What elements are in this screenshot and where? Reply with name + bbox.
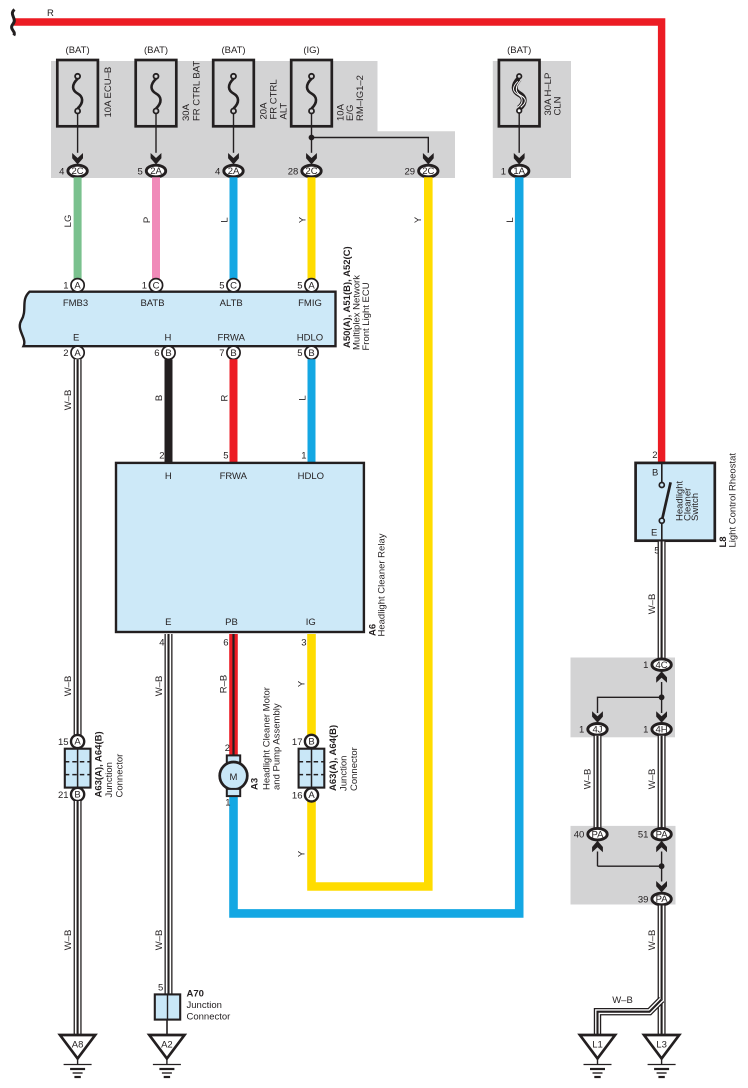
ECU pin 1 (C) BATB: [142, 279, 163, 292]
wire A70 to ground A2: [166, 1020, 168, 1034]
svg-text:A8: A8: [72, 1040, 84, 1051]
svg-text:5: 5: [138, 166, 143, 177]
svg-text:A3: A3: [249, 778, 260, 790]
svg-text:ALTB: ALTB: [220, 298, 243, 309]
connector 51 (PA): [638, 828, 671, 852]
fuse 10A E/G RM-IG1-2: [291, 45, 366, 153]
svg-text:PA: PA: [656, 829, 669, 840]
svg-text:5: 5: [219, 281, 224, 292]
connector 1 (4J): [579, 711, 607, 735]
svg-text:BATB: BATB: [140, 298, 164, 309]
wire P: [142, 177, 156, 279]
svg-text:A: A: [74, 737, 81, 748]
wire continuation squiggle: [12, 10, 15, 36]
wire L to ALTB: [219, 177, 233, 279]
ground L1: [580, 1035, 615, 1077]
svg-text:B: B: [74, 790, 80, 801]
svg-text:B: B: [652, 468, 658, 479]
ECU pin 5 (A) FMIG: [297, 279, 318, 292]
svg-text:Y: Y: [413, 216, 424, 223]
svg-text:PA: PA: [656, 894, 669, 905]
svg-text:3: 3: [301, 637, 306, 648]
svg-text:A2: A2: [161, 1040, 173, 1051]
svg-text:LG: LG: [63, 215, 74, 228]
wire W-B 4H to 51 PA: [647, 736, 662, 828]
svg-text:ALT: ALT: [279, 103, 290, 120]
multiplex network front light ECU A50/A51/A52: [20, 246, 372, 350]
connector 1 (4C): [643, 659, 671, 683]
wire W-B from relay E to A70: [154, 634, 169, 994]
svg-text:and Pump Assembly: and Pump Assembly: [272, 703, 283, 790]
svg-text:1: 1: [225, 798, 230, 809]
ground A2: [149, 1035, 184, 1077]
svg-text:A: A: [308, 790, 315, 801]
wire W-B 4J to 40 PA: [582, 736, 597, 828]
svg-text:Light Control Rheostat: Light Control Rheostat: [727, 453, 738, 548]
svg-text:(BAT): (BAT): [221, 45, 245, 56]
svg-text:IG: IG: [306, 617, 316, 628]
wire Y from relay IG: [296, 634, 311, 857]
svg-text:30A: 30A: [181, 103, 192, 121]
connector 4 (2C): [59, 153, 87, 177]
svg-text:W–B: W–B: [154, 676, 165, 697]
svg-text:FRWA: FRWA: [220, 471, 248, 482]
svg-text:1: 1: [643, 660, 648, 671]
svg-text:2: 2: [652, 450, 657, 461]
svg-text:W–B: W–B: [582, 769, 593, 790]
svg-text:A63(A), A64(B): A63(A), A64(B): [328, 725, 339, 791]
svg-text:B: B: [308, 737, 314, 748]
ground A8: [60, 1035, 95, 1077]
connector 5 (2A): [138, 153, 166, 177]
svg-text:28: 28: [288, 166, 299, 177]
connector 1 (4H): [643, 711, 671, 735]
svg-text:W–B: W–B: [63, 930, 74, 951]
headlight cleaner switch L8 light control rheostat: [636, 450, 739, 557]
svg-text:C: C: [153, 280, 160, 291]
svg-text:E: E: [165, 617, 171, 628]
junction connector A63(A) A64(B) left: [58, 731, 125, 801]
svg-text:H: H: [164, 332, 171, 343]
junction block shading (H-LP fuse block): [493, 61, 571, 178]
svg-text:Junction: Junction: [187, 1000, 222, 1011]
svg-text:2A: 2A: [228, 166, 240, 177]
svg-text:4C: 4C: [656, 660, 668, 671]
connector block shading (PA): [571, 826, 676, 905]
svg-text:B: B: [308, 348, 314, 359]
connector block shading (4C/4J/4H): [571, 658, 676, 738]
svg-text:Connector: Connector: [187, 1012, 231, 1023]
wire W-B from ECU pin E: [63, 359, 78, 735]
svg-text:4: 4: [215, 166, 220, 177]
svg-text:17: 17: [292, 737, 303, 748]
svg-text:21: 21: [58, 790, 69, 801]
svg-text:L: L: [505, 217, 516, 222]
svg-text:E: E: [73, 332, 79, 343]
junction connector A70: [155, 983, 231, 1023]
svg-text:L: L: [219, 217, 230, 222]
svg-text:2C: 2C: [72, 166, 84, 177]
svg-text:Y: Y: [296, 850, 307, 857]
svg-text:2C: 2C: [305, 166, 317, 177]
fuse 30A FR CTRL BAT: [136, 45, 203, 153]
svg-text:FRWA: FRWA: [217, 332, 245, 343]
svg-text:4: 4: [59, 166, 64, 177]
wire W-B 39 PA to grounds: [647, 906, 662, 1035]
svg-text:5: 5: [297, 281, 302, 292]
svg-text:RM–IG1–2: RM–IG1–2: [355, 75, 366, 121]
svg-text:H: H: [165, 471, 172, 482]
wire L from ECU HDLO to relay: [297, 359, 311, 463]
svg-text:L1: L1: [592, 1040, 603, 1051]
connector 1 (1A): [501, 153, 529, 177]
wire L long from pin 1A to motor: [234, 177, 520, 913]
svg-text:Junction: Junction: [104, 762, 115, 797]
svg-text:W–B: W–B: [63, 676, 74, 697]
svg-text:(BAT): (BAT): [66, 45, 90, 56]
svg-text:15: 15: [58, 737, 69, 748]
junction block shading (main fuse block): [51, 61, 455, 178]
wire R main battery feed: [14, 8, 662, 463]
svg-text:2: 2: [159, 450, 164, 461]
svg-text:39: 39: [638, 894, 649, 905]
wire Y long from pin 29 to IG elbow: [312, 177, 429, 886]
fuse 10A ECU-B: [57, 45, 114, 153]
ECU pin 5 (C) ALTB: [219, 279, 240, 292]
fusible link 30A H-LP CLN: [499, 45, 564, 153]
wire R-B from relay PB to motor: [218, 634, 233, 756]
svg-text:10A ECU–B: 10A ECU–B: [103, 67, 114, 118]
svg-text:2C: 2C: [422, 166, 434, 177]
wire Y to FMIG: [297, 177, 311, 279]
svg-text:W–B: W–B: [647, 930, 658, 951]
wire branch from IG fuse to pin 29: [309, 135, 429, 153]
svg-text:R: R: [47, 8, 54, 19]
ECU pin 5 (B) HDLO: [297, 346, 318, 359]
svg-text:29: 29: [405, 166, 416, 177]
svg-text:L: L: [297, 395, 308, 400]
svg-text:M: M: [230, 772, 238, 783]
connector 39 (PA): [638, 881, 671, 905]
svg-text:FR CTRL BAT: FR CTRL BAT: [191, 61, 202, 121]
svg-text:HDLO: HDLO: [298, 471, 324, 482]
svg-text:(BAT): (BAT): [507, 45, 531, 56]
svg-text:R: R: [219, 394, 230, 401]
svg-text:5: 5: [223, 450, 228, 461]
ground L3: [644, 1035, 679, 1077]
svg-text:7: 7: [219, 348, 224, 359]
svg-text:B: B: [154, 395, 165, 401]
connector 40 (PA): [574, 828, 607, 852]
ECU pin 7 (B) FRWA: [219, 346, 240, 359]
wire LG: [63, 177, 78, 279]
svg-text:2A: 2A: [150, 166, 162, 177]
svg-text:1: 1: [301, 450, 306, 461]
svg-text:W–B: W–B: [647, 769, 658, 790]
svg-text:B: B: [165, 348, 171, 359]
svg-text:1: 1: [643, 725, 648, 736]
svg-text:FMIG: FMIG: [298, 298, 322, 309]
svg-text:C: C: [230, 280, 237, 291]
svg-text:16: 16: [292, 790, 303, 801]
svg-text:4J: 4J: [592, 725, 602, 736]
svg-text:R–B: R–B: [218, 675, 229, 693]
svg-text:51: 51: [638, 830, 649, 841]
svg-text:Headlight Cleaner Relay: Headlight Cleaner Relay: [377, 533, 388, 636]
svg-text:5: 5: [297, 348, 302, 359]
svg-text:(IG): (IG): [303, 45, 319, 56]
svg-text:Connector: Connector: [114, 754, 125, 798]
svg-text:2: 2: [63, 348, 68, 359]
svg-text:Connector: Connector: [349, 747, 360, 791]
wire W-B switch to 4C: [647, 542, 662, 659]
svg-text:1: 1: [501, 166, 506, 177]
headlight cleaner motor A3: [220, 687, 283, 809]
connector 4 (2A): [215, 153, 243, 177]
fuse 20A FR CTRL ALT: [213, 45, 289, 153]
wire 4C to junction and 4J/4H: [598, 682, 665, 713]
svg-text:6: 6: [154, 348, 159, 359]
svg-text:W–B: W–B: [154, 930, 165, 951]
connector 29 (2C): [405, 153, 438, 177]
svg-text:Y: Y: [297, 216, 308, 223]
svg-text:B: B: [230, 348, 236, 359]
svg-text:4: 4: [159, 637, 164, 648]
svg-text:1A: 1A: [513, 166, 525, 177]
svg-text:FMB3: FMB3: [63, 298, 88, 309]
svg-text:PA: PA: [592, 829, 605, 840]
svg-text:W–B: W–B: [612, 995, 633, 1006]
svg-text:4H: 4H: [656, 725, 668, 736]
connector 28 (2C): [288, 153, 321, 177]
svg-text:L3: L3: [656, 1040, 667, 1051]
svg-text:Switch: Switch: [690, 493, 701, 521]
svg-text:Y: Y: [296, 680, 307, 687]
svg-text:5: 5: [158, 983, 163, 994]
svg-text:W–B: W–B: [63, 390, 74, 411]
wire B from ECU H to relay: [154, 359, 169, 463]
svg-text:PB: PB: [225, 617, 238, 628]
ECU pin 6 (B) H: [154, 346, 175, 359]
svg-text:W–B: W–B: [647, 594, 658, 615]
svg-text:2: 2: [225, 743, 230, 754]
junction connector A63(A) A64(B) right: [292, 725, 360, 802]
svg-text:1: 1: [579, 725, 584, 736]
svg-text:E: E: [651, 528, 657, 539]
svg-text:(BAT): (BAT): [144, 45, 168, 56]
wire PA junction: [598, 852, 665, 882]
svg-text:1: 1: [142, 281, 147, 292]
svg-text:A70: A70: [187, 989, 204, 1000]
svg-text:A: A: [308, 280, 315, 291]
svg-text:Front Light ECU: Front Light ECU: [361, 282, 372, 350]
headlight cleaner relay A6: [116, 450, 388, 648]
svg-text:1: 1: [63, 281, 68, 292]
svg-text:A: A: [74, 348, 81, 359]
svg-text:40: 40: [574, 830, 585, 841]
wire W-B branch to L1: [598, 995, 662, 1034]
wire W-B to ground A8: [63, 676, 78, 1034]
wire R from ECU FRWA to relay: [219, 359, 233, 463]
svg-text:HDLO: HDLO: [297, 332, 323, 343]
svg-text:A: A: [74, 280, 81, 291]
svg-text:P: P: [142, 217, 153, 223]
ECU pin 2 (A) E: [63, 346, 84, 359]
svg-text:6: 6: [223, 637, 228, 648]
ECU pin 1 (A) FMB3: [63, 279, 84, 292]
svg-text:CLN: CLN: [553, 96, 564, 115]
